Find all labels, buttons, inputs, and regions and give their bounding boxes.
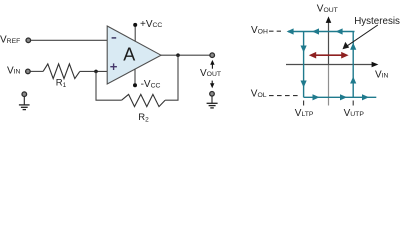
ground G2 — [207, 92, 218, 108]
wire R1 to non-inverting input — [80, 70, 107, 72]
terminal VOUT — [210, 53, 215, 58]
hysteresis falling segment at VLTP — [301, 32, 307, 98]
VOUT annotation down arrow — [210, 81, 214, 89]
wire VREF to inverting input — [31, 39, 107, 41]
tick VUTP — [352, 101, 354, 106]
tick VLTP — [303, 101, 305, 106]
svg-text:VREF: VREF — [0, 35, 20, 46]
hysteresis top segment at VOH — [287, 28, 355, 34]
wire op-amp output — [161, 54, 210, 56]
feedback wire left segment — [96, 71, 122, 100]
VOUT axis — [326, 16, 332, 64]
dashed leader VOL — [269, 95, 298, 97]
svg-text:VIN: VIN — [375, 69, 389, 80]
dashed leader VOH — [269, 30, 281, 32]
svg-text:+VCC: +VCC — [140, 19, 162, 30]
svg-text:VOUT: VOUT — [200, 68, 221, 79]
svg-text:VOL: VOL — [251, 89, 267, 100]
svg-text:VOUT: VOUT — [317, 4, 338, 15]
svg-text:R2: R2 — [138, 112, 149, 123]
svg-text:VIN: VIN — [7, 65, 21, 76]
resistor R1 — [43, 64, 80, 79]
svg-text:VOH: VOH — [251, 25, 268, 36]
resistor R2 — [122, 94, 166, 106]
terminal VIN — [26, 69, 31, 74]
svg-text:A: A — [123, 44, 135, 64]
hysteresis rising segment at VUTP — [350, 32, 356, 98]
svg-text:VUTP: VUTP — [344, 108, 365, 119]
svg-text:VLTP: VLTP — [295, 108, 314, 119]
VIN axis — [286, 62, 378, 68]
wire +Vcc stem — [134, 27, 136, 42]
feedback wire right segment — [165, 55, 178, 100]
pointer arrow Hysteresis — [343, 25, 378, 49]
svg-text:-VCC: -VCC — [141, 79, 161, 90]
terminal -Vcc — [133, 83, 137, 87]
hysteresis width arrow — [309, 52, 349, 59]
op-amp non-inverting input marker — [110, 63, 117, 70]
wire VIN to R1 — [31, 70, 44, 72]
terminal VREF — [26, 38, 31, 43]
junction node at output — [176, 53, 180, 57]
svg-text:R1: R1 — [56, 78, 67, 89]
hysteresis bottom segment at VOL — [304, 94, 377, 100]
op-amp U1 — [107, 26, 161, 84]
terminal +Vcc — [133, 23, 137, 27]
VOUT axis extension below — [328, 65, 330, 106]
junction node at R1 output — [94, 70, 98, 74]
wire -Vcc stem — [134, 69, 136, 84]
op-amp inverting input marker — [112, 37, 117, 39]
ground G1 — [19, 92, 30, 110]
VOUT annotation up arrow — [210, 60, 214, 69]
